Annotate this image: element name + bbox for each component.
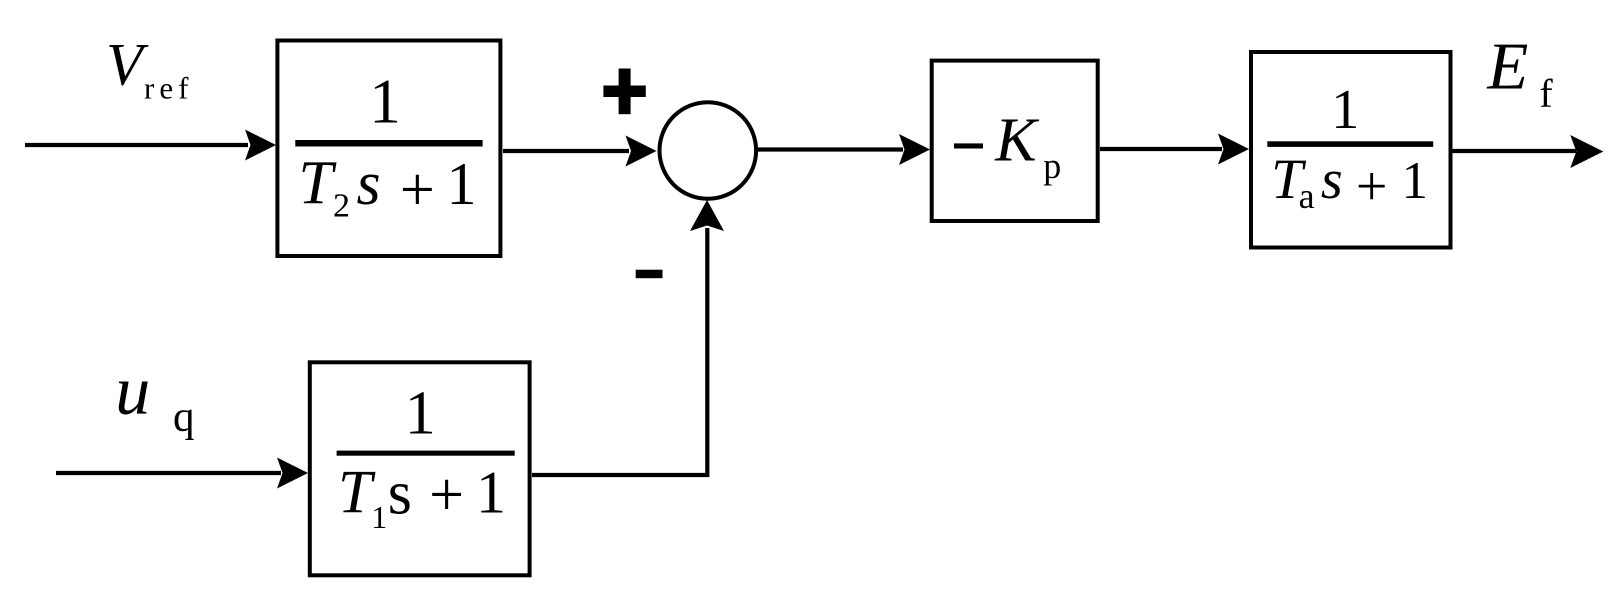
svg-text:+: + [429,461,464,529]
svg-text:T: T [298,150,337,218]
block -Kp [932,61,1098,221]
fraction bar (block T1) [337,451,515,456]
svg-text:2: 2 [333,187,350,224]
arrowhead into block Kp [899,134,930,165]
svg-text:V: V [106,32,149,98]
wire: input Vref into block T2 [25,143,248,147]
wire: block Kp to block Ta [1100,147,1222,151]
svg-text:ref: ref [144,71,193,106]
arrowhead into block T1 [277,458,308,489]
wire: output Ef [1452,149,1576,153]
svg-text:q: q [173,394,195,441]
svg-text:K: K [994,106,1040,174]
svg-text:1: 1 [1402,152,1429,210]
fraction bar (block T2) [295,140,482,147]
value label -Kp [954,143,983,148]
svg-text:f: f [1539,71,1553,116]
svg-text:s: s [1321,149,1343,211]
arrowhead into summing junction bottom [690,200,724,231]
svg-text:a: a [1299,176,1315,216]
svg-text:s: s [357,150,381,218]
svg-text:1: 1 [371,499,387,535]
summing junction circle [660,102,757,199]
svg-text:1: 1 [1331,79,1359,141]
svg-text:p: p [1043,146,1061,186]
wire: block T2 to summing junction [503,149,629,153]
svg-text:+: + [400,156,435,224]
block 1/(T2 s + 1) [277,41,500,257]
svg-text:1: 1 [369,67,401,137]
arrowhead output [1570,135,1603,168]
minus sign at summing junction [636,270,663,279]
arrowhead into summing junction [626,136,657,167]
svg-text:u: u [115,353,150,430]
svg-text:+: + [1356,156,1388,218]
wire: input uq into block T1 [56,471,281,475]
plus sign at summing junction [619,69,631,115]
fraction bar (block Ta) [1267,141,1433,147]
svg-text:s: s [388,459,412,527]
wire: block T1 output feedback to summing junction [532,228,707,475]
arrowhead into block T2 [245,130,276,161]
svg-text:1: 1 [476,460,506,526]
wire: summing junction to block Kp [758,147,903,151]
block 1/(T1 s + 1) [310,362,530,575]
svg-text:1: 1 [447,151,477,217]
block 1/(Ta s + 1) [1251,52,1451,248]
svg-text:1: 1 [405,379,436,447]
arrowhead into block Ta [1218,134,1249,165]
svg-text:E: E [1486,30,1528,104]
